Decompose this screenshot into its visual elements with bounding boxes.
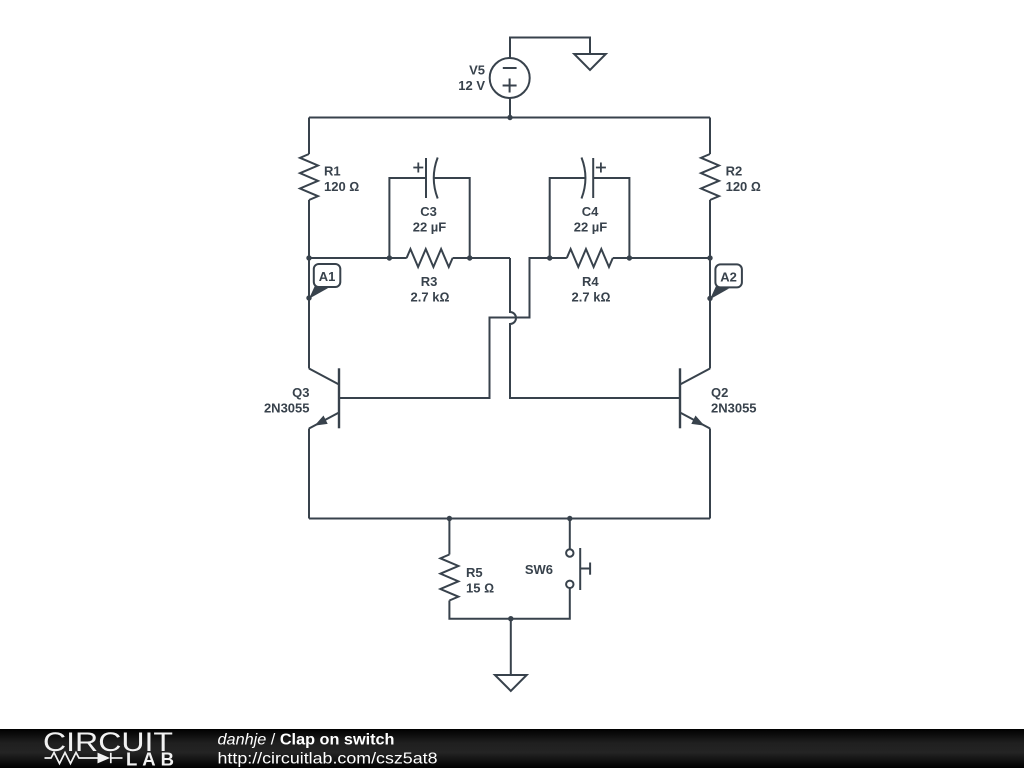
wire top rail: [309, 117, 710, 119]
node junction R3 right: [467, 255, 472, 260]
svg-text:12 V: 12 V: [458, 78, 485, 93]
svg-text:22 µF: 22 µF: [413, 220, 447, 235]
wire left vertical R1 to Q3 collector: [308, 200, 310, 369]
svg-text:2.7 kΩ: 2.7 kΩ: [572, 290, 611, 305]
node junction R3 left: [387, 255, 392, 260]
svg-text:http://circuitlab.com/csz5at8: http://circuitlab.com/csz5at8: [218, 751, 438, 768]
node junction R5 top: [447, 516, 452, 521]
logo CIRCUIT LAB: [43, 727, 174, 768]
svg-text:danhje / Clap on switch: danhje / Clap on switch: [218, 732, 395, 749]
svg-text:R3: R3: [421, 274, 438, 289]
flag A2: [710, 264, 742, 299]
switch SW6: [511, 519, 590, 619]
svg-text:R4: R4: [582, 274, 599, 289]
node A2 dot: [707, 296, 712, 301]
wire Q3 emitter down: [308, 429, 310, 519]
label R1 value: [324, 164, 359, 195]
wire R4 left stub: [550, 257, 567, 259]
wire V5 top to ground: [510, 38, 590, 59]
resistor R1: [300, 154, 318, 200]
node junction V5/top rail: [507, 115, 512, 120]
wire right vertical R2 to Q2 collector: [709, 200, 711, 369]
wire R5 bottom to junction: [449, 601, 510, 619]
svg-text:15 Ω: 15 Ω: [466, 581, 494, 596]
wire cross-couple B (R4 left to Q3 base): [339, 258, 550, 398]
label C4 value: [574, 204, 608, 235]
svg-text:120 Ω: 120 Ω: [324, 179, 359, 194]
svg-text:22 µF: 22 µF: [574, 220, 608, 235]
label R5 value: [466, 565, 494, 596]
node junction right rail / R4 row: [707, 255, 712, 260]
svg-text:V5: V5: [469, 63, 485, 78]
wire Q2 emitter down: [709, 429, 711, 519]
node junction left rail / R3 row: [306, 255, 311, 260]
node A1 dot: [306, 295, 311, 300]
svg-text:LAB: LAB: [126, 749, 174, 768]
resistor R5: [440, 555, 458, 601]
svg-text:A1: A1: [319, 269, 336, 284]
label Q3 value: [264, 385, 310, 416]
label Q2 value: [711, 385, 757, 416]
svg-text:R2: R2: [726, 164, 743, 179]
wire bottom rail: [309, 518, 710, 520]
svg-text:2N3055: 2N3055: [264, 401, 310, 416]
wire cross-couple A (R3 right to Q2 base, with hop): [510, 258, 680, 398]
resistor R2: [701, 154, 719, 200]
wire R3 right to cross wire: [453, 257, 510, 259]
resistor R4: [567, 249, 613, 267]
wire R3 left stub: [389, 257, 406, 259]
svg-text:2.7 kΩ: 2.7 kΩ: [411, 290, 450, 305]
capacitor C4: [550, 158, 630, 259]
wire R5 top: [448, 519, 450, 555]
label R3 value: [411, 274, 450, 305]
svg-text:SW6: SW6: [525, 562, 553, 577]
svg-text:A2: A2: [720, 269, 737, 284]
label R4 value: [572, 274, 611, 305]
node junction ground: [508, 616, 513, 621]
label C3 value: [413, 204, 447, 235]
wire to bottom ground: [510, 619, 512, 675]
label R2 value: [726, 164, 761, 195]
wire V5 bottom: [509, 98, 511, 118]
footer title text: [218, 732, 438, 768]
svg-text:R1: R1: [324, 164, 341, 179]
svg-text:R5: R5: [466, 565, 483, 580]
wire R4 right to right rail: [613, 257, 710, 259]
svg-text:C4: C4: [582, 204, 599, 219]
wire left rail drop: [308, 118, 310, 155]
node junction R4 right: [627, 255, 632, 260]
svg-text:120 Ω: 120 Ω: [726, 179, 761, 194]
resistor R3: [407, 249, 453, 267]
node junction R4 left: [547, 255, 552, 260]
voltage source V5: [490, 58, 530, 98]
wire right rail drop: [709, 118, 711, 155]
svg-text:2N3055: 2N3055: [711, 401, 757, 416]
transistor Q2: [680, 368, 710, 428]
ground (top): [574, 54, 606, 70]
svg-text:C3: C3: [420, 204, 437, 219]
svg-text:Q2: Q2: [711, 385, 728, 400]
svg-text:Q3: Q3: [292, 385, 309, 400]
transistor Q3: [309, 368, 339, 428]
capacitor C3: [389, 158, 469, 259]
wire node row left: [309, 257, 407, 259]
ground (bottom): [495, 675, 527, 691]
flag A1: [309, 264, 340, 299]
label V5 value: [458, 63, 485, 94]
node junction SW6 top: [567, 516, 572, 521]
